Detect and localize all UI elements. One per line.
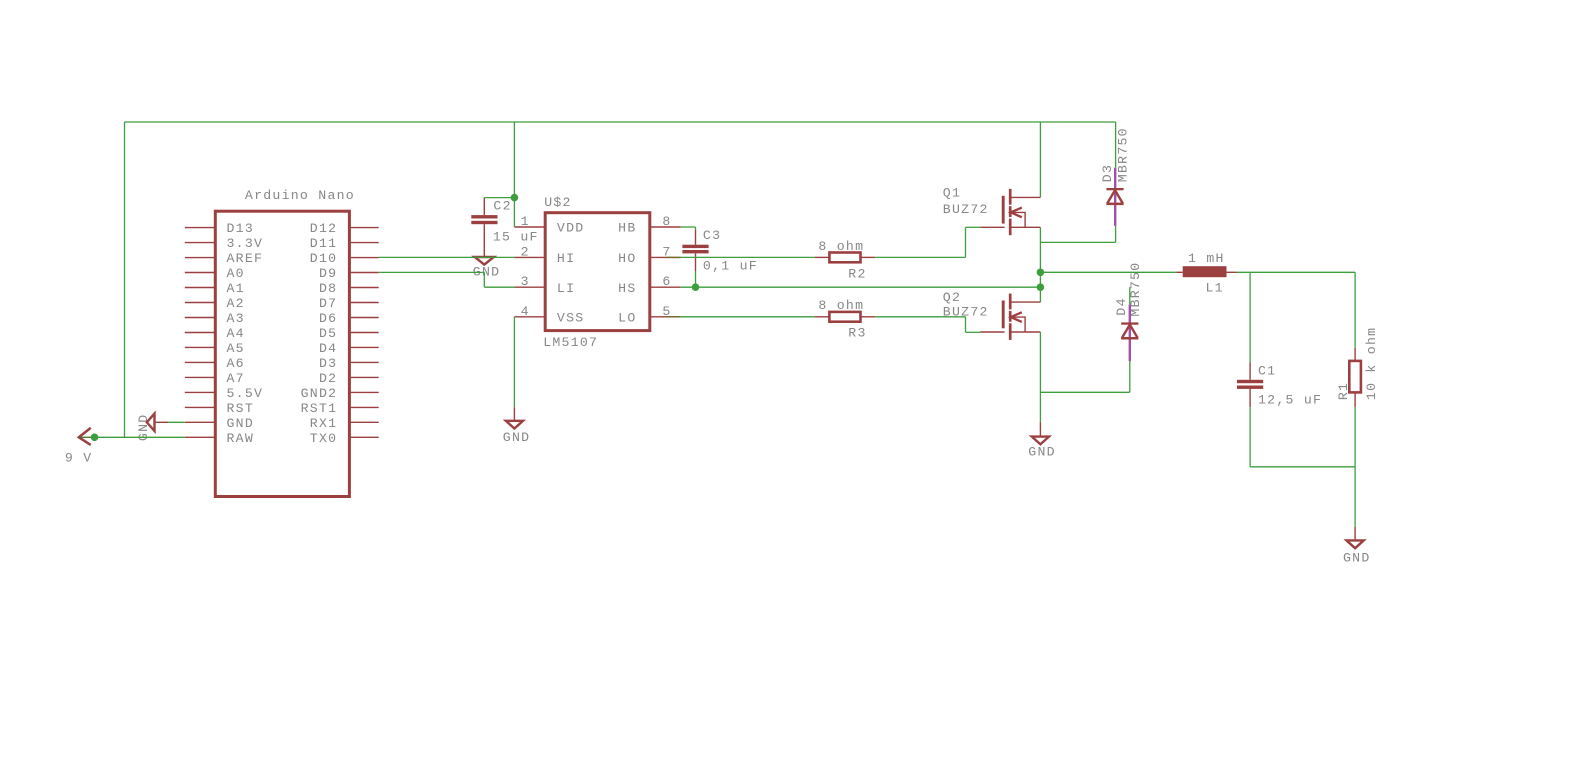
wire Arduino D9 to U$2 LI (pin 3) bbox=[484, 286, 514, 288]
svg-text:D2: D2 bbox=[319, 371, 337, 386]
pin stub TX0 (Arduino right) bbox=[349, 436, 378, 438]
svg-text:C2: C2 bbox=[493, 198, 511, 213]
resistor R1 bottom lead bbox=[1354, 392, 1356, 407]
pin stub D10 (Arduino right) bbox=[349, 257, 378, 259]
svg-text:10 k ohm: 10 k ohm bbox=[1364, 327, 1379, 400]
wire U$2 HS (pin 6) to half-bridge node bbox=[681, 286, 1041, 288]
pin stub D2 (Arduino right) bbox=[349, 376, 378, 378]
svg-text:RAW: RAW bbox=[227, 431, 255, 446]
diode D4 lead (magenta) bbox=[1129, 305, 1131, 362]
pin stub D3 (Arduino right) bbox=[349, 361, 378, 363]
svg-text:D6: D6 bbox=[319, 311, 337, 326]
junction node C3 bottom / HS net bbox=[692, 283, 700, 291]
pin stub D11 (Arduino right) bbox=[349, 242, 378, 244]
svg-text:A5: A5 bbox=[227, 341, 245, 356]
svg-text:GND: GND bbox=[503, 430, 531, 445]
pin stub D8 (Arduino right) bbox=[349, 287, 378, 289]
wire output node down to R1 bbox=[1354, 272, 1356, 348]
diode D3 schottky symbol bbox=[1106, 188, 1123, 190]
capacitor C1 bottom lead bbox=[1249, 389, 1251, 407]
wire D4 cathode to HS node bbox=[1129, 287, 1131, 304]
pin 1 VDD stub (U$2 left) bbox=[514, 226, 545, 228]
wire R1 bottom to GND bbox=[1354, 407, 1356, 527]
Arduino Nano symbol box bbox=[215, 211, 349, 496]
wire top rail to D3 cathode bbox=[1115, 122, 1117, 168]
svg-text:HS: HS bbox=[618, 281, 636, 296]
svg-text:9 V: 9 V bbox=[65, 451, 93, 466]
svg-text:D11: D11 bbox=[310, 236, 338, 251]
pin stub 5.5V (Arduino left) bbox=[185, 391, 216, 393]
pin stub GND (Arduino left) bbox=[185, 421, 216, 423]
svg-text:Q1: Q1 bbox=[943, 186, 961, 201]
pin stub RST1 (Arduino right) bbox=[349, 406, 378, 408]
transistor Q2 BUZ72 (low-side MOSFET) bbox=[1002, 301, 1005, 329]
wire C3 bottom to HS node bbox=[695, 271, 697, 287]
pin stub AREF (Arduino left) bbox=[185, 257, 216, 259]
svg-text:D13: D13 bbox=[227, 221, 255, 236]
pin stub D4 (Arduino right) bbox=[349, 346, 378, 348]
svg-text:LO: LO bbox=[618, 311, 636, 326]
diode D3 lead (magenta) bbox=[1114, 168, 1116, 226]
wire Q1 source node to D3 horizontal bbox=[1040, 241, 1115, 243]
wire net N$1 left vertical rail bbox=[124, 122, 126, 437]
svg-text:RST: RST bbox=[227, 401, 255, 416]
svg-text:D8: D8 bbox=[319, 281, 337, 296]
pin stub D6 (Arduino right) bbox=[349, 317, 378, 319]
wire Arduino D10 to U$2 HI (pin 2) bbox=[379, 256, 515, 258]
svg-text:L1: L1 bbox=[1206, 281, 1224, 296]
ground GND symbol below Q2 source bbox=[1039, 422, 1041, 437]
wire R3 to Q2 gate bbox=[966, 331, 981, 333]
pin stub A4 (Arduino left) bbox=[185, 332, 216, 334]
junction node half-bridge output to L1 bbox=[1037, 269, 1045, 277]
svg-text:GND: GND bbox=[1028, 445, 1056, 460]
pin stub A0 (Arduino left) bbox=[185, 272, 216, 274]
wire R2 to Q1 gate horizontal bbox=[875, 256, 965, 258]
wire U$2 VSS (pin 4) down to GND bbox=[513, 317, 515, 407]
ground GND symbol below R1/C1 bbox=[1354, 527, 1356, 540]
svg-text:LI: LI bbox=[557, 281, 575, 296]
capacitor C2 bottom lead bbox=[483, 224, 485, 256]
resistor R2 left lead bbox=[815, 256, 830, 258]
svg-text:VSS: VSS bbox=[557, 311, 585, 326]
wire U$2 LO (pin 5) to R3 bbox=[681, 316, 815, 318]
pin stub GND2 (Arduino right) bbox=[349, 391, 378, 393]
wire D3 anode vertical bbox=[1115, 226, 1117, 243]
wire R3 to Q2 gate vertical jog bbox=[965, 317, 967, 333]
svg-text:GND: GND bbox=[227, 416, 255, 431]
pin stub RST (Arduino left) bbox=[185, 406, 216, 408]
junction node HS net at half-bridge bbox=[1037, 283, 1045, 291]
svg-text:RST1: RST1 bbox=[301, 401, 338, 416]
svg-text:R3: R3 bbox=[848, 325, 866, 340]
svg-text:A3: A3 bbox=[227, 311, 245, 326]
resistor R3 body bbox=[829, 312, 860, 322]
svg-text:A4: A4 bbox=[227, 326, 245, 341]
resistor R3 left lead bbox=[815, 316, 830, 318]
svg-text:A2: A2 bbox=[227, 296, 245, 311]
pin stub D7 (Arduino right) bbox=[349, 302, 378, 304]
svg-text:0,1 uF: 0,1 uF bbox=[703, 258, 758, 273]
pin stub A2 (Arduino left) bbox=[185, 302, 216, 304]
wire Arduino D9 to U$2 LI horizontal bbox=[379, 271, 485, 273]
pin stub A5 (Arduino left) bbox=[185, 346, 216, 348]
wire U$2 HB (pin 8) to C3 top horizontal bbox=[681, 226, 696, 228]
svg-text:C3: C3 bbox=[703, 228, 721, 243]
svg-text:D4: D4 bbox=[319, 341, 337, 356]
ground GND symbol at Arduino GND pin (rotated, apex left) bbox=[147, 414, 155, 431]
pin stub A7 (Arduino left) bbox=[185, 376, 216, 378]
svg-text:GND: GND bbox=[1343, 550, 1371, 565]
wire R2 to Q1 gate vertical jog bbox=[965, 227, 967, 257]
svg-text:5.5V: 5.5V bbox=[227, 386, 264, 401]
wire rail drop to U$2 VDD (pin 1) bbox=[513, 122, 515, 227]
pin stub D13 (Arduino left) bbox=[185, 227, 216, 229]
svg-text:HO: HO bbox=[618, 251, 636, 266]
pin 2 HI stub (U$2 left) bbox=[514, 256, 545, 258]
svg-text:HI: HI bbox=[557, 251, 575, 266]
supply +9V arrow symbol bbox=[79, 428, 91, 445]
pin stub D12 (Arduino right) bbox=[349, 227, 378, 229]
pin stub D9 (Arduino right) bbox=[349, 272, 378, 274]
svg-text:C1: C1 bbox=[1258, 364, 1276, 379]
svg-text:D3: D3 bbox=[319, 356, 337, 371]
svg-text:12,5 uF: 12,5 uF bbox=[1258, 392, 1322, 407]
svg-text:1 mH: 1 mH bbox=[1188, 251, 1225, 266]
wire U$2 HB to C3 top vertical bbox=[695, 227, 697, 230]
svg-text:15 uF: 15 uF bbox=[493, 230, 539, 245]
pin stub RX1 (Arduino right) bbox=[349, 421, 378, 423]
capacitor C3 bottom lead bbox=[695, 253, 697, 271]
pin 8 HB stub (U$2 right) bbox=[650, 226, 681, 228]
resistor R2 body bbox=[829, 253, 860, 263]
diode D4 schottky symbol bbox=[1121, 322, 1138, 324]
pin 7 HO stub (U$2 right) bbox=[650, 256, 681, 258]
junction node VDD at C2 bbox=[511, 194, 519, 202]
pin 3 LI stub (U$2 left) bbox=[514, 286, 545, 288]
resistor R1 body bbox=[1349, 361, 1361, 393]
wire overlap on 9V supply arrow bbox=[79, 436, 91, 438]
inductor L1 right lead bbox=[1227, 271, 1237, 273]
svg-text:VDD: VDD bbox=[557, 221, 585, 236]
svg-text:R2: R2 bbox=[848, 267, 866, 282]
wire rail drop to Q1 drain bbox=[1039, 122, 1041, 197]
svg-text:Arduino Nano: Arduino Nano bbox=[245, 188, 355, 203]
pin 5 LO stub (U$2 right) bbox=[650, 316, 681, 318]
pin 6 HS stub (U$2 right) bbox=[650, 286, 681, 288]
wire GND symbol to Arduino GND pin bbox=[168, 421, 185, 423]
svg-text:D9: D9 bbox=[319, 266, 337, 281]
svg-text:D12: D12 bbox=[310, 221, 338, 236]
wire D4 anode vertical bbox=[1129, 361, 1131, 392]
capacitor C2 plates bbox=[471, 215, 497, 218]
svg-text:A1: A1 bbox=[227, 281, 245, 296]
wire Q2 source down bbox=[1039, 332, 1041, 422]
pin stub D5 (Arduino right) bbox=[349, 332, 378, 334]
IC U$2 LM5107 box bbox=[545, 213, 650, 331]
wire U$2 HO (pin 7) to R2 bbox=[681, 256, 815, 258]
svg-text:U$2: U$2 bbox=[544, 195, 572, 210]
transistor Q1 BUZ72 (high-side MOSFET) bbox=[1002, 196, 1005, 224]
svg-text:AREF: AREF bbox=[227, 251, 264, 266]
pin stub A1 (Arduino left) bbox=[185, 287, 216, 289]
wire R3 to Q2 gate horizontal bbox=[875, 316, 965, 318]
inductor L1 body (filled bar) bbox=[1183, 266, 1227, 277]
pin stub 3.3V (Arduino left) bbox=[185, 242, 216, 244]
capacitor C3 top lead bbox=[695, 230, 697, 245]
svg-text:GND2: GND2 bbox=[301, 386, 338, 401]
resistor R2 right lead bbox=[861, 256, 876, 258]
svg-text:BUZ72: BUZ72 bbox=[943, 202, 989, 217]
wire net N$1 top power rail bbox=[125, 121, 1116, 123]
inductor L1 left lead bbox=[1176, 271, 1183, 273]
resistor R1 top lead bbox=[1354, 348, 1356, 361]
wire net N$1 9V supply to Arduino RAW bbox=[91, 436, 185, 438]
capacitor C1 top lead bbox=[1249, 363, 1251, 380]
capacitor C1 plates bbox=[1237, 380, 1263, 383]
svg-text:A6: A6 bbox=[227, 356, 245, 371]
svg-text:HB: HB bbox=[618, 221, 636, 236]
wire overlap on U$2 LO pin stub bbox=[666, 316, 681, 318]
capacitor C2 top lead bbox=[483, 198, 485, 216]
resistor R3 right lead bbox=[861, 316, 876, 318]
svg-text:D7: D7 bbox=[319, 296, 337, 311]
pin stub A6 (Arduino left) bbox=[185, 361, 216, 363]
pin stub A3 (Arduino left) bbox=[185, 317, 216, 319]
wire output node down to C1 bbox=[1249, 272, 1251, 362]
svg-text:D10: D10 bbox=[310, 251, 338, 266]
junction node 9V supply bbox=[91, 434, 99, 442]
wire C1 bottom down bbox=[1249, 407, 1251, 467]
pin stub RAW (Arduino left) bbox=[185, 436, 216, 438]
ground GND symbol below U$2 VSS bbox=[513, 407, 515, 421]
wire Q2 source to D4 horizontal bbox=[1040, 391, 1129, 393]
svg-text:Q2: Q2 bbox=[943, 290, 961, 305]
svg-text:3.3V: 3.3V bbox=[227, 236, 264, 251]
svg-text:LM5107: LM5107 bbox=[543, 335, 598, 350]
wire half-bridge node to L1 bbox=[1040, 271, 1176, 273]
wire R2 to Q1 gate bbox=[966, 226, 981, 228]
wire Arduino D9 to U$2 LI vertical jog bbox=[483, 272, 485, 287]
pin 4 VSS stub (U$2 left) bbox=[514, 316, 545, 318]
svg-text:D3: D3 bbox=[1100, 164, 1115, 182]
svg-text:TX0: TX0 bbox=[310, 431, 338, 446]
svg-text:MBR750: MBR750 bbox=[1116, 127, 1131, 182]
wire L1 to output node bbox=[1237, 271, 1356, 273]
svg-text:A7: A7 bbox=[227, 371, 245, 386]
svg-text:D4: D4 bbox=[1114, 297, 1129, 315]
wire C1 bottom to R1 bottom bbox=[1250, 466, 1355, 468]
svg-text:A0: A0 bbox=[227, 266, 245, 281]
wire VDD node to C2 top bbox=[484, 197, 514, 199]
svg-text:RX1: RX1 bbox=[310, 416, 338, 431]
ground GND symbol below C2 bbox=[475, 257, 494, 265]
capacitor C3 plates bbox=[682, 245, 708, 248]
svg-text:D5: D5 bbox=[319, 326, 337, 341]
wire Q1 source to Q2 drain bbox=[1039, 227, 1041, 302]
wire overlap on U$2 HO pin stub bbox=[666, 256, 681, 258]
